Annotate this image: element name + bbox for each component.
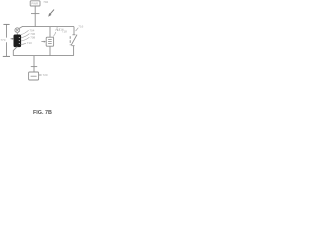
wire from power box down to top bus <box>34 6 36 27</box>
svg-text:716: 716 <box>78 24 83 28</box>
wire top bus corner down to switch <box>73 27 75 35</box>
leader to label 708 <box>21 37 29 41</box>
leader to label 706 <box>21 34 29 38</box>
wire lamp to LED module <box>16 33 18 35</box>
svg-text:708: 708 <box>30 35 35 39</box>
svg-text:FIG. 7B: FIG. 7B <box>33 110 52 116</box>
leader to label 714 (bus label) <box>56 27 59 31</box>
leader to label 710 <box>21 43 26 44</box>
lamp symbol (circle with X) <box>15 28 20 33</box>
stub wire from sensor box <box>39 74 42 76</box>
svg-text:720: 720 <box>43 73 48 77</box>
crossbar tick on power wire <box>31 13 39 15</box>
arrow pointing to LED module <box>11 38 14 40</box>
wire from LED module down to bottom bus <box>13 47 17 56</box>
wire switch down to bottom bus corner <box>73 46 75 56</box>
arrow pointing to battery stack <box>41 41 46 43</box>
LED module (black body) <box>14 35 21 47</box>
dimension line 770 (left extent) <box>3 24 10 56</box>
bottom bus wire <box>13 55 73 57</box>
battery stack module <box>46 37 53 46</box>
diagonal wire from lamp to top bus <box>19 26 22 28</box>
switch upper contact tick <box>72 34 75 36</box>
wire from bottom bus down to sensor box <box>33 56 35 72</box>
leader to label 716 <box>76 28 79 31</box>
leader to label 704 <box>21 30 29 34</box>
switch blade <box>71 35 77 46</box>
power source box (top) <box>30 1 40 6</box>
arrow 700 (figure pointer) <box>48 10 54 17</box>
svg-text:770: 770 <box>0 38 5 42</box>
wire from battery stack down to bottom bus <box>49 46 51 55</box>
sensor box <box>29 72 39 80</box>
crossbar tick on sensor wire <box>31 66 37 68</box>
top bus wire <box>22 26 74 28</box>
switch lower contact tick <box>71 45 74 47</box>
svg-text:702: 702 <box>43 0 48 4</box>
switch actuator dashed line <box>69 36 71 45</box>
svg-text:710: 710 <box>27 41 32 45</box>
wire from top bus down to battery stack <box>49 27 51 38</box>
svg-text:PWR: PWR <box>31 2 39 6</box>
leader to label 712 <box>53 32 56 37</box>
svg-text:718: 718 <box>62 29 67 33</box>
